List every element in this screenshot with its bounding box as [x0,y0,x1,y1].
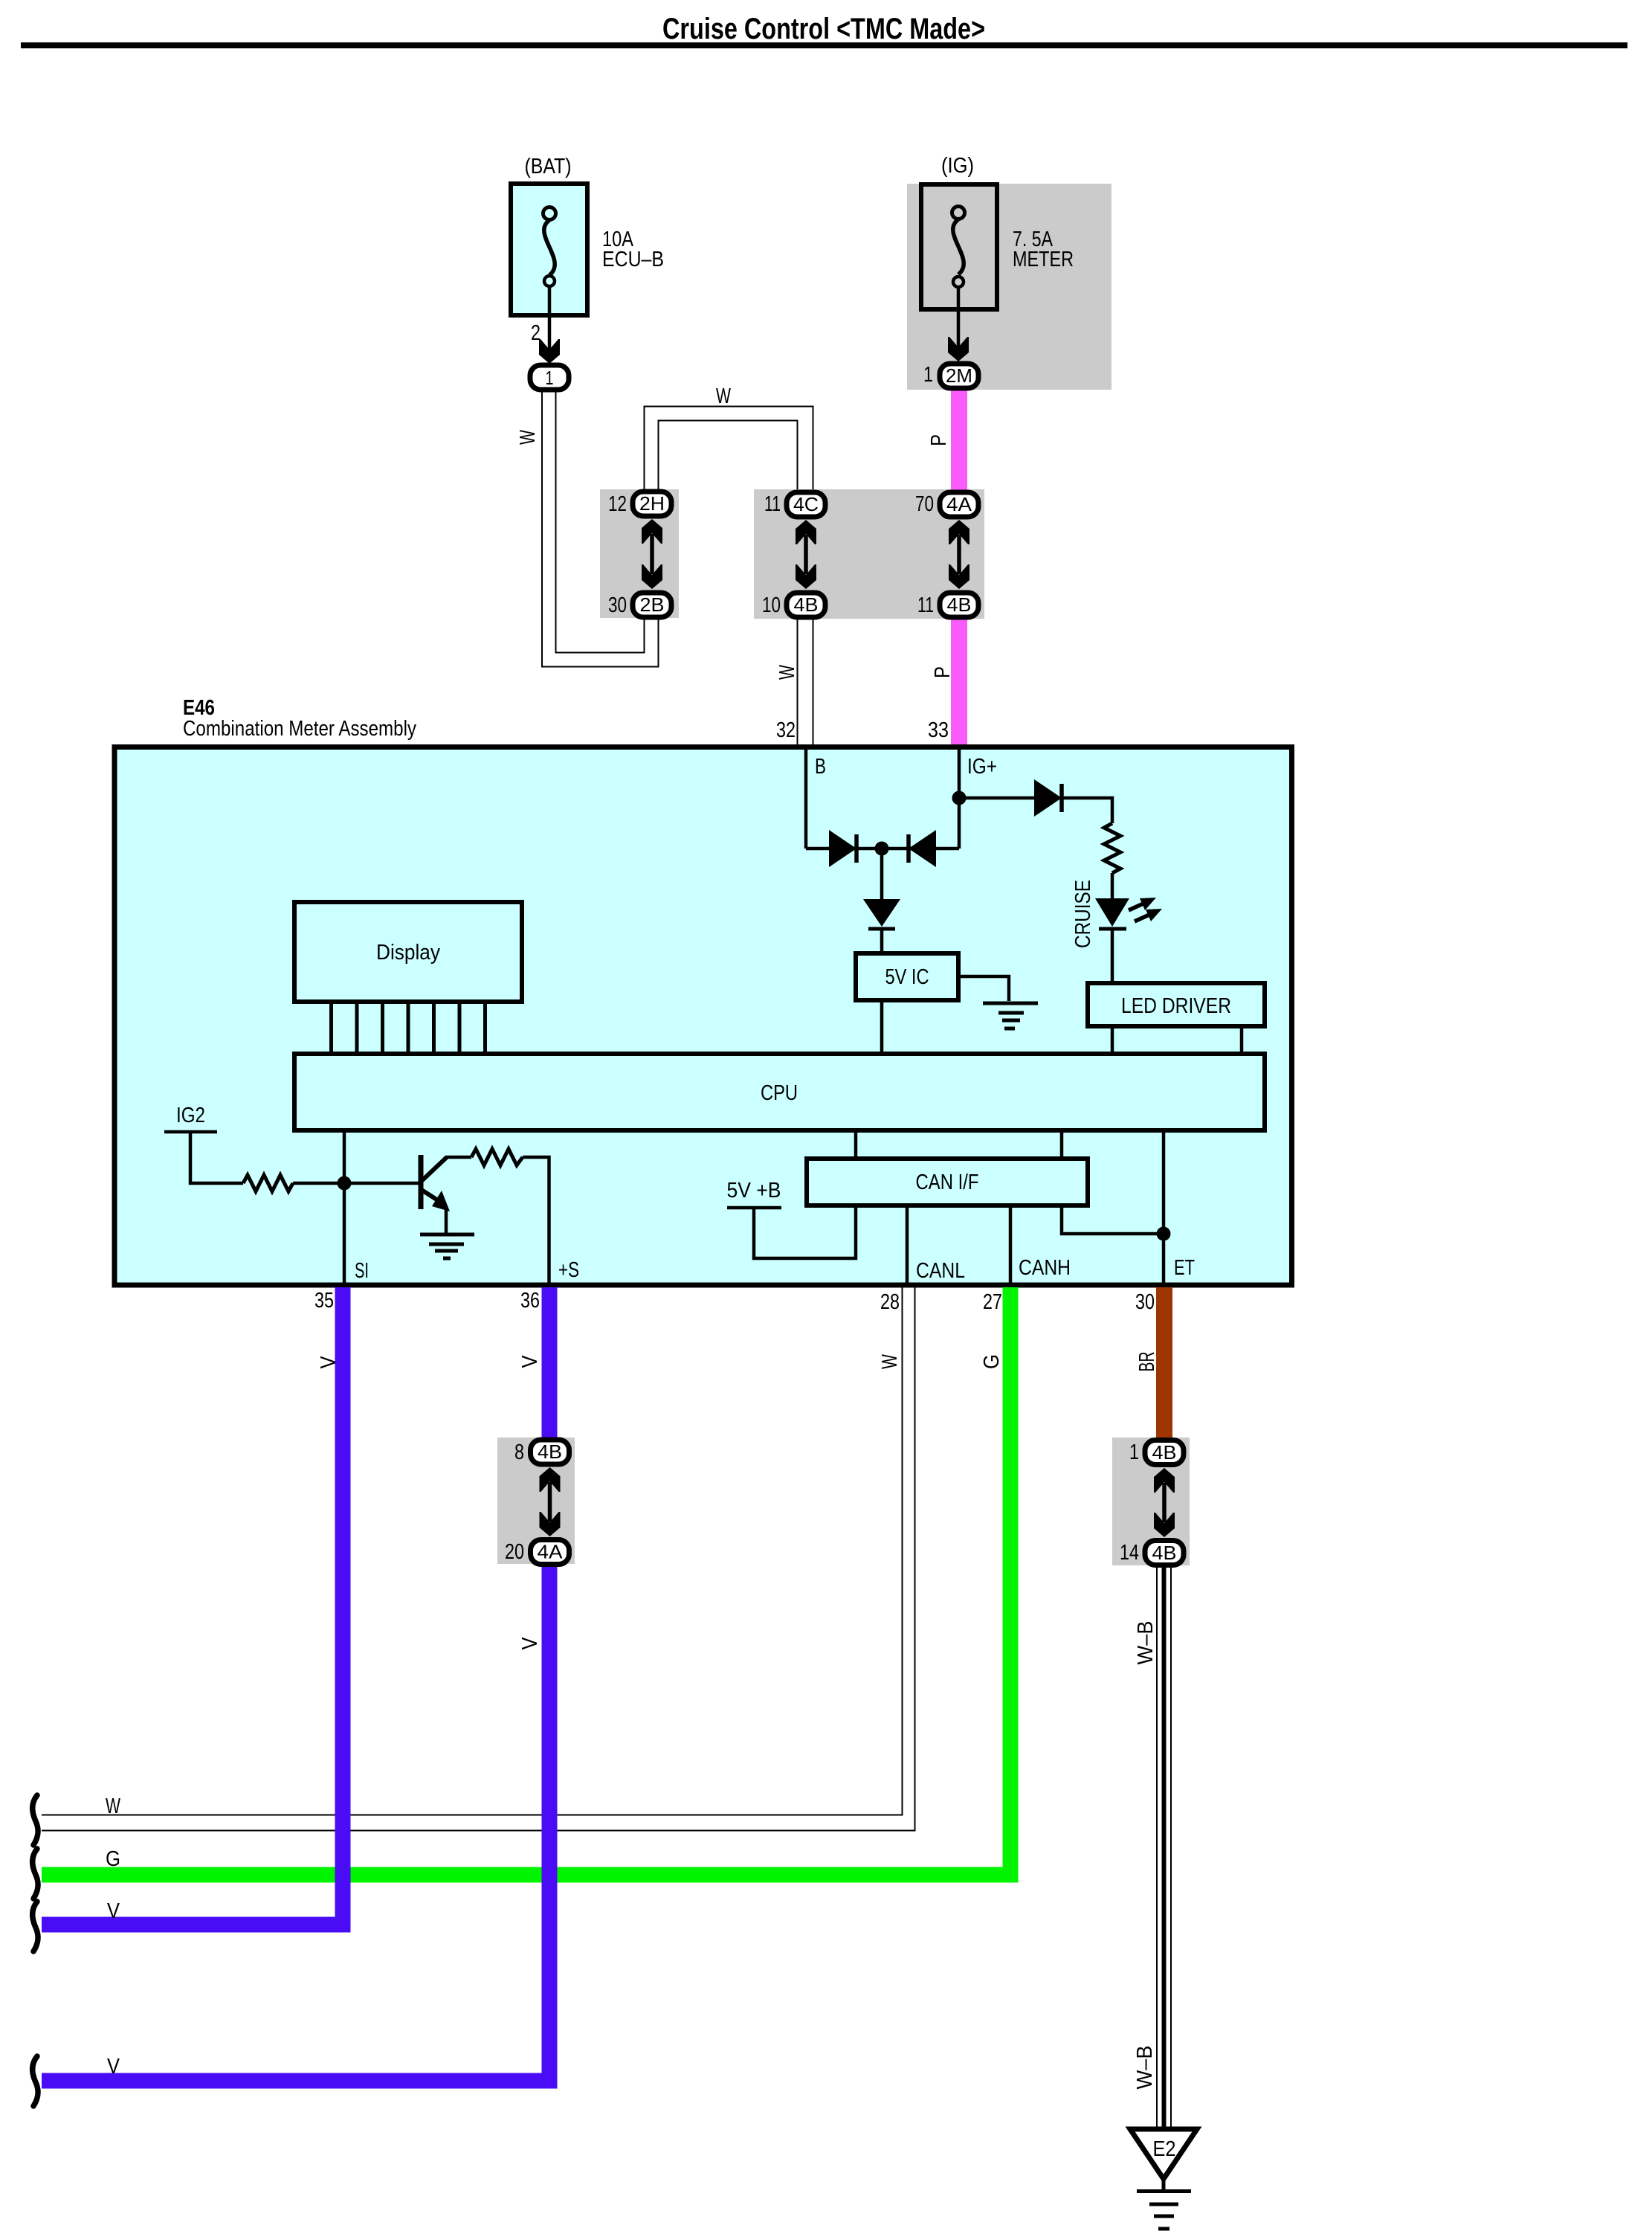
node ET junction dot [1157,1227,1171,1241]
svg-text:BR: BR [1135,1352,1159,1372]
svg-text:V: V [317,1356,341,1369]
wire CANL pin [906,1205,909,1285]
arrow into connector 2M [948,337,969,361]
resistor R2 [243,1175,293,1191]
connector 2M oval [940,364,978,388]
svg-text:28: 28 [880,1290,900,1314]
svg-text:4B: 4B [1152,1542,1177,1564]
junction arrow 4A to 4B [949,520,969,589]
svg-text:CANH: CANH [1019,1256,1071,1280]
svg-text:27: 27 [983,1290,1002,1314]
svg-text:4A: 4A [946,493,972,515]
svg-text:14: 14 [1120,1541,1139,1565]
svg-text:W: W [878,1354,902,1369]
wire base to transistor [344,1182,419,1185]
svg-text:G: G [106,1847,120,1871]
connector 4B oval right [940,593,978,617]
wire CPU to CAN I/F right [1060,1130,1064,1160]
svg-text:5V +B: 5V +B [727,1179,781,1203]
svg-text:32: 32 [776,718,796,742]
svg-text:70: 70 [915,492,934,516]
transistor Q1 emitter [422,1190,450,1211]
svg-text:P: P [927,434,951,446]
diode D4 [1034,779,1062,817]
svg-text:W–B: W–B [1133,2046,1157,2090]
wire IG2 to resistor [190,1132,243,1183]
wire CAN I/F to ET node [1062,1205,1158,1234]
box CAN I/F [807,1159,1088,1205]
fuse METER element [952,207,965,288]
transistor Q1 collector [422,1157,447,1181]
fuse ECU-B body [511,184,587,315]
wire W 4B to pin 32 [798,605,813,747]
svg-text:CPU: CPU [761,1081,798,1105]
wire D3 to 5V IC [880,930,884,956]
svg-text:SI: SI [355,1259,369,1283]
fuse METER gray box [907,184,1111,390]
connector 1 oval [530,365,569,390]
wire fuse METER to connector 2M [957,287,961,348]
svg-text:5V IC: 5V IC [885,965,929,989]
svg-text:35: 35 [314,1289,334,1313]
svg-text:B: B [815,755,826,779]
resistor R1 cruise [1104,823,1120,873]
power 5V +B bar [727,1206,781,1210]
svg-text:CANL: CANL [916,1259,965,1283]
svg-text:4A: 4A [538,1541,564,1563]
svg-text:20: 20 [505,1540,524,1564]
transistor Q1 base bar [419,1155,424,1209]
svg-text:P: P [931,666,955,678]
junction arrow 4B to 4B [1154,1468,1175,1537]
svg-text:Display: Display [376,941,440,965]
svg-text:(BAT): (BAT) [525,155,572,178]
resistor R3 [471,1149,523,1165]
svg-text:CRUISE: CRUISE [1071,880,1095,948]
svg-text:G: G [980,1354,1004,1369]
box Display [294,902,522,1002]
svg-text:V: V [518,1637,542,1650]
svg-text:12: 12 [608,492,627,516]
diode D2 [909,830,936,867]
svg-text:11: 11 [917,593,934,617]
wire 5V +B to CAN I/F [754,1205,856,1258]
svg-text:2M: 2M [946,364,972,387]
connector 4B oval [531,1440,570,1464]
svg-text:METER: METER [1013,248,1074,271]
svg-text:W: W [716,384,731,408]
svg-text:4B: 4B [538,1440,562,1463]
arrow into connector 1 [539,339,560,364]
svg-text:Combination Meter Assembly: Combination Meter Assembly [183,717,416,741]
node IG2 bar [164,1130,217,1134]
box LED DRIVER [1088,983,1265,1026]
svg-text:33: 33 [928,718,949,742]
wire SI pin line [343,1130,346,1285]
wire ET pin line [1162,1130,1166,1285]
junction block 8-4B 20-4A gray box [497,1438,575,1564]
squiggle W [33,1795,38,1845]
svg-text:V: V [107,1899,120,1923]
svg-text:ET: ET [1174,1256,1195,1280]
connector 4B oval lower [1145,1541,1184,1565]
svg-text:1: 1 [923,363,933,387]
junction arrow 4C to 4B [796,520,816,589]
wire collector to resistor R3 [445,1156,471,1159]
svg-text:1: 1 [546,367,554,389]
svg-text:CAN I/F: CAN I/F [916,1171,979,1194]
LED emission arrows [1129,903,1151,921]
wire CANH pin [1009,1205,1013,1285]
squiggle G [33,1849,38,1899]
wire W loop 2H to 4C [645,407,813,492]
node SI junction dot [338,1176,352,1191]
wire fuse ECU-B to connector 1 [548,286,552,350]
node junction dot [875,842,889,856]
svg-text:LED DRIVER: LED DRIVER [1121,994,1231,1018]
ground G1 [983,1003,1038,1028]
title rule [21,42,1627,48]
wire emitter to ground [445,1208,448,1234]
wire 5V IC to CPU [880,1000,884,1054]
node IG+ junction dot [952,791,967,805]
svg-text:W: W [775,665,799,680]
wire LED to LED DRIVER [1111,930,1114,983]
svg-text:30: 30 [608,593,627,617]
connector 4B oval upper [1145,1440,1184,1465]
svg-text:IG+: IG+ [967,755,997,779]
wire W connector 1 to 2B [542,390,659,667]
diode D3 [863,899,900,929]
svg-text:Cruise Control <TMC Made>: Cruise Control <TMC Made> [662,13,985,45]
LED CRUISE [1095,898,1129,929]
wire R3 to +S pin [523,1157,549,1285]
wire P meter 2M to 4A [951,390,967,504]
connector 2H oval [633,492,671,516]
svg-text:V: V [518,1355,542,1368]
svg-text:4C: 4C [793,493,819,515]
svg-text:V: V [107,2055,120,2079]
wire IG+ branch [959,796,1034,800]
wire D4 to resistor [1063,798,1112,823]
svg-text:ECU–B: ECU–B [602,248,664,271]
ground G2 [420,1234,474,1258]
svg-text:W: W [106,1794,120,1818]
wire V +S down and left [42,1287,549,2081]
svg-text:8: 8 [514,1440,524,1464]
wire W CANL down and left [42,1287,915,1831]
svg-text:1: 1 [1129,1440,1139,1464]
squiggle V35 [33,1902,38,1951]
svg-text:4B: 4B [1152,1441,1177,1464]
junction block 2H-2B gray box [600,489,679,618]
box 5V IC [856,953,958,1000]
wire resistor to SI node [293,1182,344,1185]
node B pin line [804,747,808,849]
LED DRIVER pins [1112,1028,1242,1054]
svg-text:11: 11 [764,492,781,516]
connector 4B oval [787,593,825,617]
svg-text:4B: 4B [947,593,972,616]
wire CPU to CAN I/F left [854,1130,858,1160]
box E46 Combination Meter Assembly [114,747,1292,1286]
wire 5V IC output [961,976,1009,1001]
wire W-B to E2 [1157,1566,1171,2129]
svg-text:36: 36 [520,1289,540,1313]
svg-text:(IG): (IG) [941,154,974,178]
squiggle V36 [33,2056,38,2106]
svg-text:IG2: IG2 [176,1104,205,1127]
wire G CANH down and left [42,1287,1010,1875]
wire P 4B to pin 33 [951,605,967,747]
connector 4A oval [940,492,978,517]
Display pins [332,1004,485,1054]
svg-text:4B: 4B [794,593,819,616]
wire V SI down and left [42,1287,343,1925]
wire diode row [806,847,959,851]
svg-text:2H: 2H [639,492,665,515]
connector 4C oval [787,492,825,517]
ground E2 triangle [1130,2129,1197,2179]
connector 4A oval [531,1540,570,1565]
svg-text:30: 30 [1135,1290,1155,1314]
svg-text:W: W [516,430,540,445]
box CPU [294,1054,1265,1130]
wire E2 stem [1162,2179,1166,2189]
svg-text:2B: 2B [640,593,665,616]
svg-text:E2: E2 [1153,2137,1176,2161]
ground E2 bars [1137,2192,1191,2230]
junction arrow 4B to 4A [540,1467,561,1536]
wire junction to diode D3 [880,849,884,899]
diode D1 [829,830,856,867]
connector 2B oval [633,593,671,617]
svg-text:10: 10 [762,593,781,617]
junction block 1-4B 14-4B gray box [1112,1438,1190,1565]
wire BR ET down [1156,1287,1172,1438]
svg-text:W–B: W–B [1134,1621,1158,1665]
fuse ECU-B element [543,207,556,287]
svg-text:+S: +S [558,1258,579,1282]
node IG+ pin line [958,747,961,849]
junction block 4C-4B-4A-4B gray box [754,489,984,619]
junction arrow 2H to 2B [642,519,662,589]
wire resistor to LED [1111,873,1114,900]
fuse METER body [921,184,997,309]
